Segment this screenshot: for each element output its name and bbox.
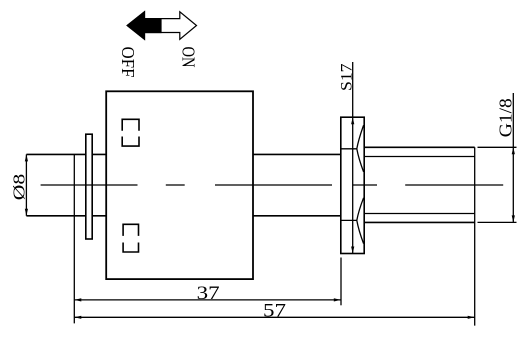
svg-text:37: 37 <box>197 283 220 304</box>
svg-text:ON: ON <box>179 47 199 68</box>
G1/8 extension lines <box>478 93 517 222</box>
retaining pin <box>86 134 92 239</box>
dia8 dimension line <box>25 154 27 215</box>
centerline <box>41 184 504 186</box>
37 right extension line <box>340 258 342 306</box>
svg-text:S17: S17 <box>338 63 355 91</box>
svg-text:G1/8: G1/8 <box>496 98 516 137</box>
left shaft outline <box>26 154 106 215</box>
svg-text:57: 57 <box>263 300 286 321</box>
threaded shaft <box>364 147 475 222</box>
svg-text:OFF: OFF <box>118 47 138 78</box>
nut chamfer arc bottom <box>357 198 364 244</box>
nut chamfer arc top <box>357 125 364 172</box>
dimension 57 <box>74 316 474 318</box>
toggle arrow symbol (OFF/ON) <box>127 12 196 40</box>
main body rectangle <box>106 91 253 279</box>
dimension 37 <box>74 299 341 301</box>
nut flat line bottom <box>341 219 357 221</box>
left extension line <box>73 155 75 323</box>
svg-text:Ø8: Ø8 <box>9 174 28 201</box>
thread end + 57 extension line <box>474 147 476 325</box>
S17 leader line <box>352 62 354 254</box>
middle shaft outline <box>253 154 341 215</box>
nut flat line top <box>341 148 357 150</box>
top contact square <box>122 119 139 146</box>
bottom contact square <box>123 224 138 252</box>
hex nut <box>341 117 364 253</box>
